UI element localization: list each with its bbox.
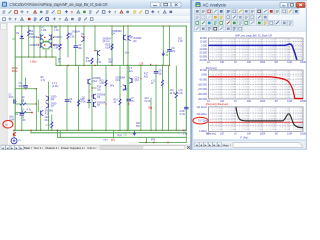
svg-text:4.2.1: 4.2.1: [52, 83, 58, 85]
ac toolbar3 icon 8: [238, 20, 243, 25]
svg-text:R15: R15: [99, 80, 104, 82]
ac toolbar4 icon 3: [207, 26, 212, 31]
wire col 34: [33, 26, 35, 57]
svg-text:Q12: Q12: [116, 80, 121, 82]
svg-text:90.000: 90.000: [200, 69, 208, 72]
v3 source arrow col 163: [162, 26, 164, 51]
transistor Q13 band: [131, 79, 133, 83]
svg-text:(Minutes): (Minutes): [206, 132, 217, 135]
ac toolbar2 icon 11: [257, 15, 262, 20]
svg-text:-90.000: -90.000: [199, 79, 208, 82]
ac toolbar3 icon 7: [232, 20, 237, 25]
svg-text:10K: 10K: [247, 100, 252, 103]
svg-text:1.8K: 1.8K: [54, 48, 59, 50]
svg-text:+C9k: +C9k: [179, 111, 185, 113]
plot 3 frame: [209, 107, 304, 131]
toolbar1 icon 14: [83, 11, 86, 13]
col 78.6 low: [78, 65, 80, 130]
horizontal resistor row 1: [15, 103, 20, 105]
svg-text:Info 1 /: Info 1 /: [88, 146, 97, 150]
svg-text:-270.000: -270.000: [198, 88, 208, 91]
svg-text:F (Hz): F (Hz): [241, 135, 249, 139]
plot 2 phase curve: [209, 77, 304, 99]
toolbar1 icon 17: [102, 11, 105, 14]
toolbar1 icon 4: [21, 10, 23, 13]
transistor Q6 lower left bar: [40, 43, 42, 48]
col 168.5 from H4 corner: [168, 65, 170, 130]
transistor Q7 lower right bar: [50, 43, 52, 48]
svg-text:9.1K: 9.1K: [97, 62, 102, 64]
ac toolbar3 icon 11: [257, 20, 262, 25]
svg-text:100K: 100K: [260, 100, 266, 103]
svg-text:1K: 1K: [234, 61, 237, 64]
col 95 transistor Q6a: [94, 26, 96, 51]
plot 1 gain curve: [209, 44, 297, 60]
svg-text:2N39: 2N39: [51, 96, 57, 98]
ac toolbar3 icon 6: [226, 20, 231, 25]
svg-text:C(): C(): [124, 135, 127, 137]
col 128.7 cap C7: [127, 98, 131, 100]
col 75.7 capacitor C4: [75, 26, 77, 45]
child minimize button: [151, 2, 161, 7]
ac toolbar4 icon 4: [213, 26, 218, 31]
transistor Q11: [40, 111, 42, 115]
svg-text:100M: 100M: [300, 132, 306, 135]
svg-text:+2(): +2(): [178, 90, 182, 92]
transistor Q2 right bar: [50, 35, 52, 40]
svg-text:-20.000: -20.000: [199, 52, 208, 55]
col 176.3 resistor: [175, 66, 177, 92]
svg-text:1.65m: 1.65m: [30, 61, 37, 64]
svg-text:100: 100: [220, 61, 225, 64]
toolbar1 icon 28: [170, 11, 173, 13]
svg-text:20.000: 20.000: [200, 37, 208, 40]
svg-text:4(0): 4(0): [170, 90, 174, 92]
svg-text:4.7k: 4.7k: [45, 124, 50, 127]
ac toolbar1 icon 10: [250, 9, 255, 14]
toolbar1 icon 27: [163, 11, 166, 14]
wire rail to busA link: [113, 130, 115, 137]
ac nav button 3: [204, 142, 208, 147]
svg-text:Power Supplies 1 /: Power Supplies 1 /: [61, 146, 85, 150]
col 151 low: [150, 98, 152, 130]
col 162.5 low resistor: [162, 65, 164, 80]
svg-text:2N3906M: 2N3906M: [112, 31, 122, 33]
svg-text:Main /: Main /: [24, 146, 32, 150]
svg-text:2N3906#: 2N3906#: [116, 77, 126, 79]
col 127.2 low: [126, 65, 128, 130]
svg-text:2N3906: 2N3906: [93, 78, 102, 80]
toolbar row 2: [0, 16, 192, 23]
toolbar1 icon 8: [46, 10, 49, 12]
window aero border: [192, 0, 307, 150]
page nav button 1: [1, 145, 5, 149]
app icon: [2, 2, 7, 7]
col 140.9 low: [140, 65, 142, 130]
page nav button 5: [19, 145, 23, 149]
svg-text:470n: 470n: [8, 97, 14, 99]
left gutter: [0, 23, 7, 150]
ac maximize button: [288, 2, 295, 7]
ac toolbar3 icon 5: [219, 20, 224, 25]
left title bar: [0, 0, 192, 9]
svg-text:100M: 100M: [300, 61, 306, 64]
left window background: [0, 0, 192, 150]
wire lower bus C: [139, 141, 186, 143]
toolbar1 icon 23: [140, 10, 143, 13]
ac nav button 2: [199, 142, 203, 147]
col 128 upper: [127, 26, 129, 36]
bus C dots: [145, 142, 147, 144]
ac toolbar3 icon 4: [213, 20, 218, 25]
svg-text:10K: 10K: [247, 61, 252, 64]
red current arrow: [13, 132, 15, 135]
svg-text:R14: R14: [114, 99, 119, 101]
AC analysis window: [190, 0, 307, 150]
ac toolbar1 icon 12: [263, 9, 268, 14]
svg-text:100M: 100M: [300, 100, 306, 103]
toolbar1 icon 24: [146, 11, 149, 14]
svg-text:1M: 1M: [274, 100, 277, 103]
svg-text:2N3908: 2N3908: [45, 111, 54, 113]
svg-text:9.1K: 9.1K: [105, 47, 110, 49]
svg-text:0.000: 0.000: [201, 74, 208, 77]
svg-text:50m: 50m: [9, 117, 14, 119]
svg-text:141.421m: 141.421m: [196, 106, 207, 109]
extra mid dots: [105, 103, 106, 104]
ac toolbar3 icon 15: [282, 20, 287, 25]
toolbar row 1: [0, 9, 192, 16]
svg-text:Q13: Q13: [135, 80, 140, 82]
left bottom tab bar: [0, 145, 192, 150]
ac toolbar1 icon 15: [282, 9, 287, 14]
red ellipse on y label: [193, 117, 208, 124]
svg-text:C2a: C2a: [135, 77, 140, 79]
plot 2 frame: [209, 70, 304, 99]
toolbar2 icon 13: [78, 17, 81, 19]
toolbar2 icon 4: [21, 18, 24, 21]
mid transistor pair left: [47, 97, 49, 101]
svg-text:R12: R12: [45, 120, 50, 122]
svg-text:100K: 100K: [260, 132, 266, 135]
svg-text:19.1K: 19.1K: [144, 101, 151, 103]
svg-text:43.2: 43.2: [144, 98, 149, 100]
toolbar2 icon 11: [65, 18, 68, 21]
upper pair dots: [44, 37, 46, 39]
svg-text:-450.000: -450.000: [198, 98, 208, 101]
transistor Qc3 glyph: [125, 86, 127, 90]
ac toolbar2 icon 10: [250, 15, 255, 20]
svg-text:Q10: Q10: [93, 81, 98, 83]
H6 rail: [15, 88, 36, 90]
cap C5: [25, 83, 27, 85]
svg-text:Main /: Main /: [223, 143, 231, 147]
svg-text:1M: 1M: [274, 132, 277, 135]
toolbar2 icon 8: [46, 18, 49, 21]
lower pair dots: [44, 44, 46, 46]
svg-text:db(v(out)): db(v(out)): [206, 67, 217, 70]
col 36.4: [35, 89, 37, 131]
ac toolbar2 icon 9: [244, 15, 249, 20]
ac toolbar1 icon 11: [257, 9, 262, 14]
plot 1 frame: [209, 38, 304, 60]
ac toolbar1 icon 7: [232, 9, 237, 14]
svg-text:+C: +C: [97, 59, 100, 61]
ac toolbar2 icon 8: [238, 15, 243, 20]
toolbar1 icon 11: [65, 10, 67, 13]
svg-text:1K: 1K: [234, 100, 237, 103]
red input ellipse: [3, 120, 13, 128]
ac icon: [196, 2, 201, 7]
svg-text:10M: 10M: [287, 100, 292, 103]
svg-text:804m: 804m: [12, 70, 18, 73]
svg-text:1.2K: 1.2K: [54, 30, 59, 32]
col 156 cap C9: [155, 65, 157, 70]
ac toolbar1 icon 3: [207, 9, 212, 14]
toolbar1 icon 15: [89, 10, 92, 12]
wire right rail: [185, 26, 187, 130]
toolbar1 icon 2: [9, 10, 12, 13]
svg-text:R14: R14: [97, 87, 102, 89]
ac toolbar1 icon 5: [219, 9, 224, 14]
toolbar2 icon 12: [71, 18, 74, 20]
schematic group: [3, 25, 188, 144]
svg-text:70.711m: 70.711m: [198, 120, 207, 123]
svg-text:10M: 10M: [287, 61, 292, 64]
svg-text:19.1k: 19.1k: [170, 93, 177, 95]
svg-text:47.4k: 47.4k: [179, 114, 186, 116]
svg-text:10M: 10M: [287, 132, 292, 135]
col 60 resistor R5: [59, 26, 61, 44]
ac toolbar4 icon 8: [238, 26, 243, 31]
svg-text:-360.000: -360.000: [198, 93, 208, 96]
ac nav button 1: [195, 142, 199, 147]
toolbar1 icon 10: [58, 11, 61, 14]
ac toolbar1 icon 6: [226, 9, 231, 14]
V1 source: [13, 130, 15, 138]
svg-text:10.000: 10.000: [200, 41, 208, 44]
ac toolbar4 icon 6: [226, 26, 231, 31]
schematic client area: [0, 23, 192, 145]
ac h scrollbar: [233, 143, 303, 148]
H3 rail: [15, 56, 56, 58]
wire top rail: [15, 25, 186, 27]
ac toolbar1 icon 2: [201, 9, 206, 14]
ac toolbar2 icon 3: [207, 15, 212, 20]
ac plot client: [193, 32, 305, 140]
H4 rail left: [56, 64, 124, 66]
toolbar1 icon 21: [126, 11, 129, 13]
page nav button 3: [10, 145, 14, 149]
svg-text:AC Analysis: AC Analysis: [203, 3, 227, 8]
svg-text:1.78: 1.78: [139, 62, 144, 65]
transistor Q6c: [93, 95, 95, 99]
svg-text:Text 1 /: Text 1 /: [34, 146, 44, 150]
plot 2 grid: [212, 70, 214, 99]
svg-text:-10.000: -10.000: [199, 48, 208, 51]
ac toolbar3 icon 3: [207, 20, 212, 25]
ac toolbar2 icon 6: [226, 15, 231, 20]
svg-text:5R3: 5R3: [151, 139, 156, 141]
svg-text:9Pa: 9Pa: [110, 86, 115, 88]
ac toolbar4 icon 2: [201, 26, 206, 31]
ac toolbar2 icon 1: [195, 15, 200, 20]
svg-text:R23: R23: [136, 123, 141, 125]
left h scrollbar: [100, 146, 185, 150]
ground arrow below rail: [133, 131, 135, 135]
svg-text:1.5K: 1.5K: [99, 83, 104, 85]
scroll corner x mark: [187, 146, 190, 149]
toolbar1 icon 18: [109, 10, 111, 13]
svg-text:1M: 1M: [274, 61, 277, 64]
toolbar1 icon 25: [152, 10, 154, 13]
ac bottom border: [192, 149, 307, 150]
svg-text:2N3906: 2N3906: [97, 94, 106, 96]
transistor Q1 left bar: [40, 35, 42, 40]
ac toolbars bg: [193, 8, 305, 32]
svg-text:R11: R11: [80, 99, 85, 101]
toolbar1 icon 1: [3, 10, 6, 12]
toolbar2 icon 7: [40, 18, 43, 21]
col 112 vertical: [111, 26, 113, 65]
svg-text:1.3K: 1.3K: [70, 37, 75, 39]
ac toolbar1 icon 14: [275, 9, 280, 14]
cap col 21.8 low: [21, 57, 23, 89]
page nav button 2: [6, 145, 10, 149]
child restore button: [161, 2, 171, 7]
svg-text:Q6 a.b: Q6 a.b: [103, 41, 111, 43]
col 67 to bot: [66, 65, 68, 99]
toolbar1 icon 13: [77, 11, 80, 14]
top rail dots: [21, 25, 23, 27]
ac toolbar2 icon 4: [213, 15, 218, 20]
svg-text:QT: QT: [51, 106, 55, 108]
svg-text:R12: R12: [45, 113, 50, 115]
svg-text:AMP_one_stage_BW_SC_Bode.CIR: AMP_one_stage_BW_SC_Bode.CIR: [235, 33, 272, 37]
svg-text:2N3904: 2N3904: [133, 38, 142, 40]
svg-text:1.2M: 1.2M: [41, 30, 46, 32]
svg-text:2N3904: 2N3904: [72, 31, 81, 33]
ac toolbar4 icon 5: [219, 26, 224, 31]
resistor R12 col51.8: [51, 115, 53, 122]
ac toolbar2 icon 12: [263, 15, 268, 20]
svg-text:2N3904: 2N3904: [103, 38, 112, 40]
plot 1 grid: [212, 38, 214, 60]
ac toolbar4 icon 1: [195, 26, 200, 31]
transistor Q7c: [93, 103, 95, 107]
toolbar2 icon 15: [90, 18, 93, 21]
toolbar2 icon 14: [84, 18, 87, 21]
svg-text:4(2): 4(2): [144, 76, 148, 78]
ac toolbar3 icon 10: [250, 20, 255, 25]
zener diode D1 col: [21, 26, 23, 36]
ac toolbar3 icon 12: [263, 20, 268, 25]
mid col 92 lower: [91, 65, 93, 130]
plot 3 magnitude curve: [236, 107, 303, 128]
col 28.7 resistor R3: [28, 26, 30, 30]
toolbar1 icon 7: [40, 11, 43, 13]
svg-text:Rg1: Rg1: [118, 135, 123, 137]
toolbar2 icon 9: [53, 17, 55, 20]
svg-text:+1.1: +1.1: [151, 80, 156, 82]
H3 to H4 link: [55, 57, 57, 65]
svg-text:+ind: +ind: [103, 139, 108, 141]
svg-text:GE2: GE2: [45, 117, 50, 119]
toolbar1 icon 6: [34, 11, 37, 14]
ac bottom bar: [193, 141, 305, 149]
transistor Q10 band: [87, 80, 89, 84]
ac nav button 6: [217, 142, 221, 147]
ac toolbar1 icon 9: [244, 9, 249, 14]
toolbar2 icon 6: [34, 17, 37, 19]
wire left rail: [14, 26, 16, 130]
svg-text:-180.000: -180.000: [198, 83, 208, 86]
toolbar2 icon 2: [9, 17, 11, 20]
toolbar1 icon 20: [120, 11, 123, 14]
right transistor pair with diode: [88, 92, 90, 100]
svg-text:0.000: 0.000: [201, 44, 208, 47]
ac toolbar3 icon 14: [275, 20, 280, 25]
transistor pair Q1 Q2 columns: [39, 26, 41, 37]
ac toolbar4 icon 7: [232, 26, 237, 31]
ac toolbar1 icon 16: [288, 9, 293, 14]
svg-text:g(1): g(1): [111, 139, 115, 141]
ac toolbar2 icon 7: [232, 15, 237, 20]
svg-text:ph(v(out)) (Degrees): ph(v(out)) (Degrees): [206, 103, 229, 106]
svg-text:R10: R10: [105, 45, 110, 47]
ac toolbar1 icon 1: [195, 9, 200, 14]
svg-text:100n: 100n: [18, 86, 24, 88]
svg-text:100.000m: 100.000m: [196, 113, 207, 116]
ac toolbar1 icon 17: [294, 9, 299, 14]
svg-text:C:\MC10\DATA\Primers\AMP\amp_s: C:\MC10\DATA\Primers\AMP\amp_stage\AMP_o…: [10, 2, 108, 7]
ac close button: [296, 2, 305, 7]
ac nav button 4: [208, 142, 212, 147]
window shadow edge: [190, 0, 191, 150]
ac minimize button: [280, 2, 287, 7]
ac toolbar1 icon 8: [238, 9, 243, 14]
ac toolbar1 icon 13: [269, 9, 274, 14]
svg-text:Models 1 /: Models 1 /: [46, 146, 60, 150]
svg-text:470K: 470K: [80, 102, 86, 104]
pair green ladder: [39, 36, 42, 38]
svg-text:1.3K: 1.3K: [178, 41, 183, 43]
ac nav button 5: [213, 142, 217, 147]
svg-text:R17: R17: [144, 74, 149, 76]
svg-text:2N39: 2N39: [51, 103, 57, 105]
wire bottom rail: [15, 129, 186, 131]
horizontal resistor row 2: [15, 112, 20, 114]
col 120 lower: [119, 65, 121, 99]
wire lower bus B: [58, 136, 187, 138]
toolbar2 icon 1: [3, 18, 6, 21]
svg-text:100K: 100K: [260, 61, 266, 64]
svg-text:2N3904: 2N3904: [97, 102, 106, 104]
svg-text:1M+: 1M+: [125, 52, 130, 54]
svg-text:2N3906: 2N3906: [54, 37, 63, 39]
page nav button 4: [15, 145, 19, 149]
svg-text:QR: QR: [51, 99, 55, 101]
svg-text:+C: +C: [41, 27, 44, 29]
ac title bar: [193, 1, 307, 9]
svg-text:1K: 1K: [234, 132, 237, 135]
toolbar1 icon 22: [133, 10, 136, 12]
plot 3 red marker line: [209, 121, 304, 123]
ac toolbar3 icon 2: [201, 20, 206, 25]
H4 rail right: [124, 64, 169, 66]
ac toolbar2 icon 5: [219, 15, 224, 20]
svg-text:R17: R17: [178, 38, 183, 40]
